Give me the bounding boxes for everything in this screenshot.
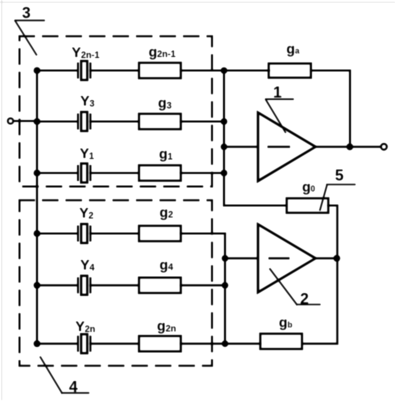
node dots right bus 1 [221,67,228,176]
wire row4 left [37,232,78,234]
resistor g0 [287,198,329,213]
resistor g1 [139,165,181,180]
wire op-amp2 output [316,257,338,259]
label 4 leader [40,357,88,393]
wire row1 right [181,69,224,71]
wire row2 left [37,120,78,122]
op-amp U2 minus [270,257,289,259]
wire row6 mid [90,343,138,345]
node dots right bus 2 [222,255,229,347]
svg-text:1: 1 [273,85,282,102]
crystal Y1 [78,164,90,183]
resistor g3 [139,114,181,129]
wire right bus 1 [224,71,286,206]
label 1 leader [266,99,293,132]
label 3 leader [15,20,44,54]
wire row6 right [181,343,225,345]
wire input to bus [14,120,37,122]
wire ga right + feedback down [311,71,350,147]
wire op-amp1 output [316,146,381,148]
scan frame left [1,0,3,400]
wire gb left [225,343,260,345]
crystal Y3 [78,112,90,131]
wire row3 right [181,172,224,174]
crystal Y2 [78,224,90,243]
crystal Y4 [78,276,90,295]
svg-text:3: 3 [22,5,31,22]
node dot amp2 output [333,255,340,262]
input terminal [8,118,13,123]
wire row3 mid [90,172,138,174]
op-amp U1 minus [269,146,290,148]
wire row5 mid [90,284,138,286]
wire row3 left [37,172,78,174]
resistor gb [260,334,302,349]
wire row1 mid [90,69,138,71]
svg-text:5: 5 [335,167,344,184]
dashed box 4 [20,200,213,365]
output terminal [381,144,387,150]
wire row1 left [37,69,78,71]
node dot amp1 output [346,143,353,150]
resistor ga [269,64,311,78]
wire row2 mid [90,120,138,122]
wire g0 right / stage2 feedback [302,206,337,344]
wire op-amp1 input [224,146,258,148]
label 5 leader [320,185,355,211]
crystal Y2n [78,334,90,353]
resistor g2n [139,336,181,351]
wire left bus [36,71,38,344]
op-amp U2 [258,224,316,292]
node dots left bus [34,67,41,347]
wire ga left [224,69,269,71]
wire row4 right [181,232,225,234]
resistor g2n-1 [139,63,181,78]
wire row6 left [37,343,78,345]
dashed box 3 [20,36,213,186]
wire row4 mid [90,232,138,234]
wire row5 left [37,284,78,286]
wire row2 right [181,120,224,122]
svg-text:2: 2 [300,291,309,308]
resistor g2 [139,226,181,241]
crystal Y2n-1 [78,61,90,80]
wire op-amp2 input [225,257,258,259]
label 2 leader [270,269,320,305]
wire right bus 2 [224,234,226,344]
svg-text:4: 4 [69,379,78,396]
op-amp U1 [258,113,316,181]
wire row5 right [181,284,225,286]
resistor g4 [139,278,181,293]
scan frame top [0,1,395,3]
